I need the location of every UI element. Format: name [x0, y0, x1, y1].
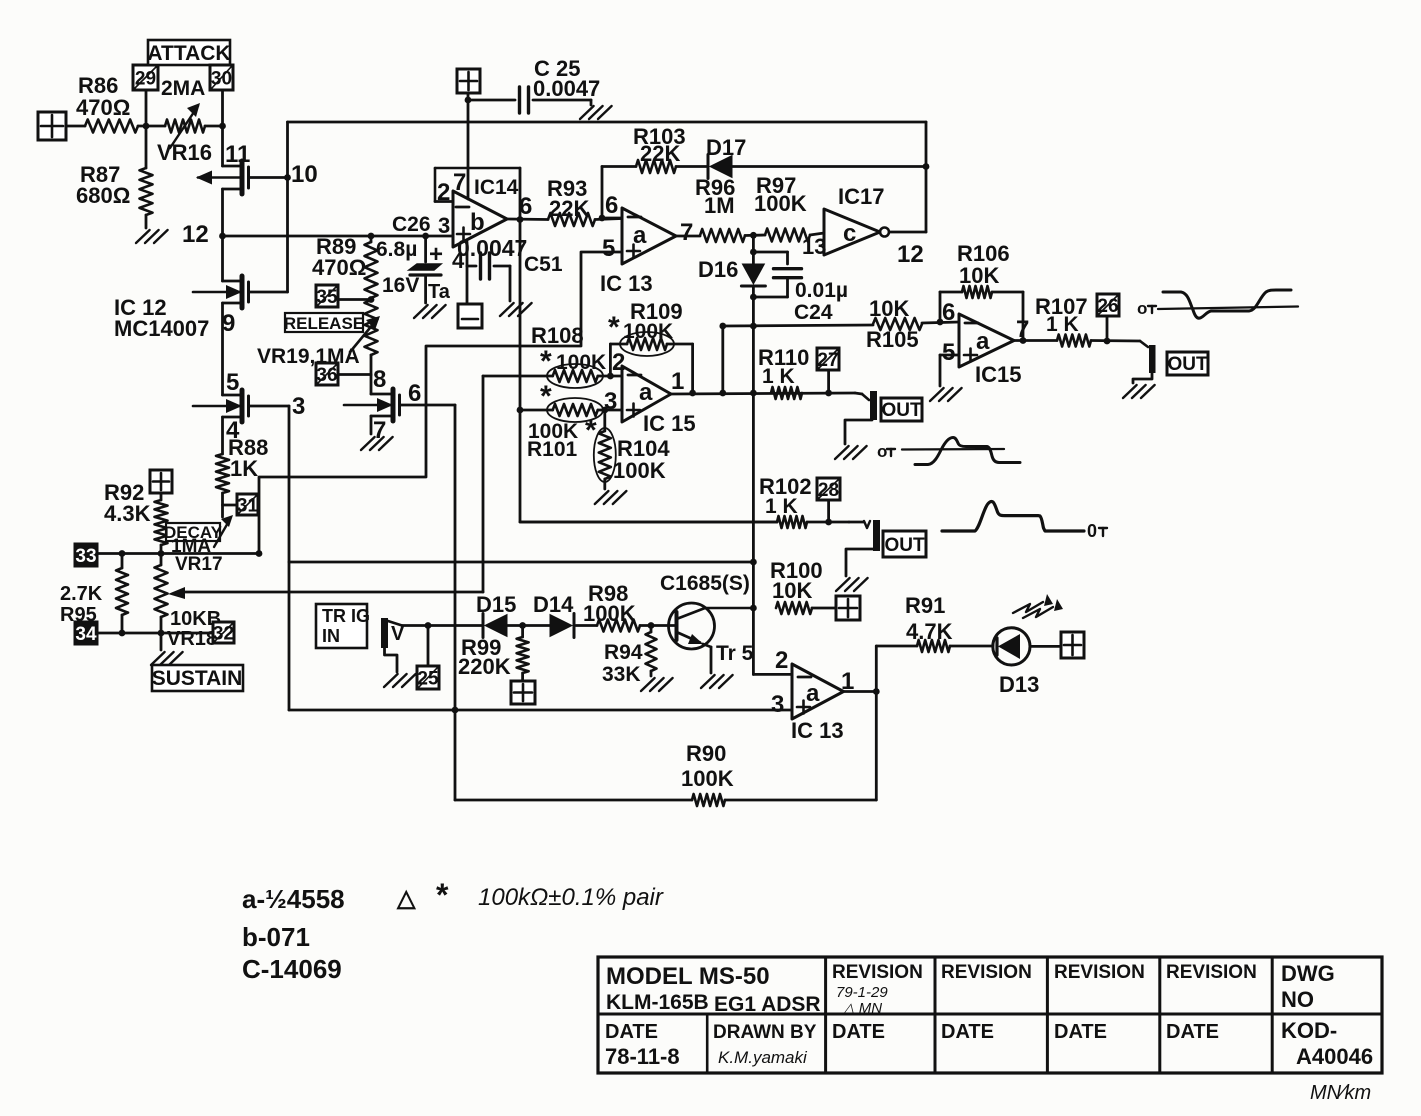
- svg-text:C-14069: C-14069: [242, 954, 342, 984]
- resistor R89 470ohm: [312, 233, 378, 298]
- terminal box 36: [316, 363, 371, 386]
- svg-text:16V: 16V: [382, 274, 419, 297]
- svg-text:78-11-8: 78-11-8: [605, 1044, 680, 1069]
- op-amp IC15 a (left): [604, 349, 696, 436]
- svg-text:1M: 1M: [704, 193, 735, 218]
- vertical wire IC14 output net down to out3: [520, 168, 777, 522]
- svg-text:VR17: VR17: [175, 554, 223, 575]
- junction R96 R97 D16: [745, 232, 765, 239]
- wire IC15b pin5 to ground: [940, 355, 959, 386]
- label 1MA VR17: [171, 536, 223, 575]
- resistor R93 22K: [547, 176, 622, 226]
- svg-text:11: 11: [225, 141, 250, 168]
- label SUSTAIN box: [152, 665, 243, 691]
- labels 10K C24 R105: [866, 296, 919, 352]
- svg-text:o: o: [877, 442, 887, 461]
- resistor R107 1K: [1035, 294, 1140, 347]
- wire R90 loop: [455, 692, 876, 807]
- svg-text:C26: C26: [392, 213, 431, 236]
- ground for C25: [580, 106, 594, 119]
- ground for C51: [500, 303, 514, 316]
- svg-text:3: 3: [771, 691, 784, 718]
- svg-text:C1685(S): C1685(S): [660, 572, 750, 595]
- transistor IC12 FET1 pins 11/10: [196, 141, 250, 194]
- svg-text:27: 27: [817, 350, 838, 371]
- svg-text:IC 13: IC 13: [791, 718, 844, 743]
- svg-text:2.7K: 2.7K: [60, 583, 103, 605]
- svg-text:R91: R91: [905, 593, 945, 618]
- wire R86 to VR16 with node: [138, 123, 165, 130]
- svg-text:5: 5: [942, 339, 955, 366]
- ground for FET4 source: [361, 437, 375, 450]
- svg-text:470Ω: 470Ω: [76, 95, 130, 120]
- svg-text:R108: R108: [531, 323, 584, 348]
- output jack 2: [846, 520, 880, 576]
- ground for VR18: [151, 633, 183, 665]
- svg-text:10K: 10K: [869, 296, 909, 321]
- wire IC17 output to top bus: [889, 122, 929, 268]
- wire R109 feedback corner: [610, 344, 692, 393]
- waveform sketch 3 (adsr, bottom): [942, 502, 1107, 541]
- title block model text: [606, 963, 821, 1016]
- wire FET1 source to node 12: [219, 189, 226, 239]
- svg-text:5: 5: [602, 235, 615, 262]
- wire pin5 sense path up and right: [259, 252, 622, 554]
- wire D16 column to IC13b pin2: [753, 608, 792, 674]
- svg-text:10: 10: [291, 161, 318, 188]
- svg-text:2MA: 2MA: [161, 77, 205, 100]
- svg-text:A40046: A40046: [1296, 1044, 1373, 1069]
- op-amp IC15 b (right): [942, 299, 1029, 387]
- ground for trigger jack: [384, 674, 398, 687]
- svg-text:79-1-29: 79-1-29: [836, 984, 888, 1001]
- label ATTACK: [147, 40, 230, 65]
- wire R103 column to IC13a minus input: [599, 167, 622, 222]
- capacitor C51 label 0.0047: [457, 235, 563, 276]
- svg-text:SUSTAIN: SUSTAIN: [152, 667, 243, 690]
- resistor R99 220K: [458, 622, 550, 681]
- terminal box 26: [1097, 294, 1119, 344]
- svg-text:1 K: 1 K: [1046, 313, 1079, 336]
- trigger input jack: [381, 618, 405, 672]
- svg-text:b-071: b-071: [242, 922, 310, 952]
- capacitor C25 0.0047: [468, 56, 600, 113]
- resistor R108 100K star pair element: [483, 345, 622, 388]
- svg-text:IC 15: IC 15: [643, 411, 696, 436]
- wire box30 node down to FET1 drain: [221, 126, 224, 166]
- svg-text:5: 5: [226, 369, 239, 396]
- ground for R94: [641, 678, 655, 691]
- svg-text:C24: C24: [794, 301, 833, 324]
- title block revision 2 cell: [941, 962, 1032, 1043]
- svg-text:RELEASE: RELEASE: [284, 314, 364, 333]
- terminal box 33: [75, 544, 164, 567]
- terminal + box for D13: [1061, 632, 1084, 658]
- svg-text:1K: 1K: [230, 456, 258, 481]
- svg-text:D16: D16: [698, 257, 738, 282]
- resistor R110 1K: [758, 345, 809, 388]
- svg-text:26: 26: [1097, 296, 1118, 317]
- wire R105 row: [723, 318, 959, 330]
- resistor R101 100K star pair: [520, 380, 622, 461]
- svg-text:470Ω: 470Ω: [312, 255, 366, 280]
- output jack 3 (right): [1133, 341, 1156, 383]
- potentiometer VR16: [157, 103, 212, 165]
- svg-text:*: *: [436, 877, 449, 913]
- svg-text:8: 8: [373, 366, 386, 393]
- terminal box 25: [417, 626, 439, 690]
- terminal box 27: [817, 348, 839, 396]
- label IC12 MC14007: [114, 295, 209, 341]
- label OUT box 3: [1167, 352, 1208, 375]
- wire FET2 source down to FET3: [221, 303, 224, 395]
- svg-text:6.8µ: 6.8µ: [376, 238, 417, 261]
- resistor R88 1K: [216, 417, 268, 517]
- diode D16: [698, 235, 765, 608]
- svg-text:R90: R90: [686, 741, 726, 766]
- ground for jack 1: [835, 446, 849, 459]
- svg-text:34: 34: [75, 624, 97, 645]
- terminal minus box: [458, 304, 482, 328]
- IC14 pin4 to minus box and C51: [467, 242, 510, 304]
- svg-text:KLM-165B: KLM-165B: [606, 991, 709, 1014]
- ground for C26: [414, 305, 428, 318]
- svg-text:TR IG: TR IG: [322, 606, 370, 626]
- op-amp IC17 c (14069 inverter): [802, 184, 889, 259]
- terminal + box above decay: [150, 470, 172, 500]
- svg-text:a: a: [639, 379, 653, 406]
- svg-text:12: 12: [897, 241, 924, 268]
- resistor R100 10K: [750, 558, 836, 614]
- svg-text:ATTACK: ATTACK: [147, 42, 230, 65]
- resistor R109 100K star pair: [608, 299, 693, 356]
- terminal box 28: [817, 478, 840, 525]
- title block revision 1 cell: [832, 962, 923, 1043]
- capacitor C26 6.8u 16V Ta: [376, 213, 451, 303]
- svg-text:100kΩ±0.1% pair: 100kΩ±0.1% pair: [478, 884, 664, 911]
- wire decay node to pin5 path corner: [161, 550, 262, 557]
- ground for IC15b pin5: [930, 388, 944, 401]
- svg-text:REVISION: REVISION: [832, 962, 923, 983]
- svg-text:R94: R94: [604, 641, 643, 664]
- diode D14: [533, 592, 597, 638]
- ground for jack 2: [836, 578, 850, 591]
- wire IC15b output: [1014, 339, 1057, 342]
- potentiometer VR19 RELEASE 1MA: [350, 300, 380, 375]
- ground for Tr5 emitter: [701, 675, 715, 688]
- svg-text:3: 3: [438, 213, 450, 238]
- svg-text:OUT: OUT: [884, 535, 925, 556]
- terminal box 30: [210, 65, 233, 126]
- svg-text:1 K: 1 K: [762, 365, 795, 388]
- wire IC14 output and junction: [507, 193, 548, 223]
- VR18 labels: [167, 608, 221, 650]
- vertical gate bus: [286, 122, 289, 292]
- wire node 12 to IC14 pin3: [223, 235, 454, 238]
- label OUT box 2: [883, 531, 926, 557]
- wire IC15a output row: [671, 390, 855, 397]
- resistor R98 100K: [583, 581, 677, 632]
- op-amp IC13 a (bottom comparator): [771, 647, 854, 743]
- capacitor C24 0.01u: [750, 249, 848, 324]
- svg-text:36: 36: [316, 365, 337, 386]
- svg-text:22K: 22K: [640, 141, 680, 166]
- svg-text:13: 13: [802, 234, 826, 259]
- resistor R86 470ohm: [76, 73, 138, 133]
- svg-text:28: 28: [818, 480, 839, 501]
- svg-text:DATE: DATE: [1054, 1021, 1107, 1043]
- svg-text:2: 2: [775, 647, 788, 674]
- resistor R91 4.7K: [876, 593, 993, 652]
- wire FET4 gate pin6: [400, 380, 456, 407]
- svg-text:DWG: DWG: [1281, 961, 1335, 986]
- terminal box 35: [316, 285, 374, 308]
- svg-text:△ MN: △ MN: [842, 1000, 882, 1017]
- terminal box 34: [75, 622, 164, 645]
- svg-text:VR19,1MA: VR19,1MA: [257, 345, 360, 368]
- svg-text:R105: R105: [866, 327, 919, 352]
- resistor R104 100K star pair: [585, 410, 670, 489]
- resistor R87 680ohm: [76, 126, 153, 228]
- svg-text:4.3K: 4.3K: [104, 501, 151, 526]
- svg-text:7: 7: [680, 219, 693, 246]
- svg-text:35: 35: [316, 287, 338, 308]
- wire trigger to D15: [402, 622, 483, 629]
- svg-text:IN: IN: [322, 626, 340, 646]
- svg-text:REVISION: REVISION: [1166, 962, 1257, 983]
- svg-text:25: 25: [417, 668, 439, 689]
- resistor R95 2.7K: [60, 554, 128, 634]
- svg-text:K.M.yamaki: K.M.yamaki: [718, 1048, 808, 1067]
- legend op-amp key a b c: [242, 884, 345, 984]
- svg-text:DRAWN BY: DRAWN BY: [713, 1022, 817, 1043]
- svg-text:IC17: IC17: [838, 184, 884, 209]
- waveform sketch 2 (overshoot pulse, middle): [877, 438, 1020, 465]
- wire to R105 row: [719, 323, 726, 393]
- svg-text:4.7K: 4.7K: [906, 619, 953, 644]
- svg-text:OUT: OUT: [881, 400, 922, 421]
- svg-text:0.0047: 0.0047: [533, 76, 600, 101]
- title block table: [598, 957, 1382, 1073]
- svg-text:680Ω: 680Ω: [76, 183, 130, 208]
- resistor R102 1K to out 2: [520, 474, 849, 528]
- svg-text:a: a: [806, 680, 820, 707]
- title block revision 4 cell: [1166, 962, 1257, 1043]
- svg-text:a: a: [633, 222, 647, 249]
- svg-text:30: 30: [211, 68, 232, 89]
- svg-text:OUT: OUT: [1167, 354, 1208, 375]
- label DECAY box: [164, 523, 223, 542]
- svg-text:100K: 100K: [681, 766, 734, 791]
- wire IC13a output: [676, 235, 700, 238]
- resistor R97 100K: [754, 173, 824, 242]
- svg-text:D13: D13: [999, 672, 1039, 697]
- title block date drawn cells: [605, 1021, 817, 1069]
- resistor R96 1M: [695, 175, 745, 242]
- svg-text:29: 29: [135, 68, 156, 89]
- svg-text:KOD-: KOD-: [1281, 1018, 1337, 1043]
- vertical wire pin3 column down: [288, 406, 291, 710]
- title block dwg no cell: [1281, 961, 1373, 1069]
- svg-text:DATE: DATE: [605, 1021, 658, 1043]
- potentiometer VR17 DECAY 1MA with R92: [104, 480, 168, 554]
- svg-text:22K: 22K: [549, 196, 589, 221]
- transistor Tr5 C1685(S): [660, 572, 754, 673]
- terminal + box for R100: [836, 596, 860, 620]
- svg-text:IC14: IC14: [474, 176, 519, 199]
- VR18 wiper arrow and sustain wire: [168, 587, 483, 599]
- svg-text:12: 12: [182, 221, 209, 248]
- potentiometer VR18 10KB SUSTAIN: [155, 554, 168, 634]
- terminal box 31: [223, 494, 259, 516]
- transistor IC12 FET2 pins 12/9: [193, 236, 249, 308]
- svg-text:IC15: IC15: [975, 362, 1021, 387]
- svg-text:DATE: DATE: [1166, 1021, 1219, 1043]
- svg-text:Ta: Ta: [428, 281, 451, 303]
- ground for R87: [136, 230, 150, 243]
- svg-text:220K: 220K: [458, 654, 511, 679]
- svg-text:DATE: DATE: [941, 1021, 994, 1043]
- terminal box 32: [161, 622, 234, 644]
- svg-text:*: *: [540, 345, 552, 378]
- wire FET1 gate to vertical: [249, 174, 291, 181]
- svg-text:0.01µ: 0.01µ: [795, 279, 848, 302]
- svg-text:a-½4558: a-½4558: [242, 884, 345, 914]
- svg-text:32: 32: [213, 623, 234, 644]
- wire VR16 to node of box30: [205, 123, 226, 130]
- svg-text:C51: C51: [524, 253, 563, 276]
- svg-text:100K: 100K: [583, 601, 636, 626]
- svg-text:MODEL MS-50: MODEL MS-50: [606, 963, 770, 990]
- svg-text:1: 1: [671, 368, 684, 395]
- wire IC13b output junction: [844, 688, 880, 695]
- svg-text:6: 6: [408, 380, 421, 407]
- svg-text:0: 0: [1087, 521, 1097, 541]
- wire H1 retrigger sense: [289, 559, 757, 566]
- svg-text:6: 6: [942, 299, 955, 326]
- svg-text:REVISION: REVISION: [941, 962, 1032, 983]
- svg-text:33: 33: [75, 546, 96, 567]
- svg-text:7: 7: [1016, 316, 1029, 343]
- resistor R94 33K: [602, 626, 657, 687]
- op-amp IC14 b (071): [435, 168, 520, 273]
- transistor IC12 FET3 pins 5/4/3: [193, 369, 249, 444]
- svg-text:D15: D15: [476, 592, 516, 617]
- waveform sketch 1 (inverted envelope, top right): [1137, 290, 1298, 318]
- diode D17: [676, 135, 926, 179]
- terminal + box top: [457, 69, 480, 199]
- svg-text:VR18: VR18: [167, 628, 217, 650]
- svg-text:31: 31: [237, 495, 259, 516]
- svg-text:6: 6: [605, 192, 618, 219]
- ground for jack 3: [1123, 385, 1137, 398]
- svg-text:c: c: [843, 220, 856, 247]
- svg-text:33K: 33K: [602, 663, 641, 686]
- wire terminal to R86: [66, 125, 85, 128]
- terminal input + box (left): [38, 112, 66, 140]
- vertical wire from FET4 gate down to comparator net: [452, 405, 459, 800]
- svg-text:b: b: [470, 209, 485, 236]
- svg-text:10K: 10K: [959, 263, 999, 288]
- svg-text:1 K: 1 K: [765, 495, 798, 518]
- svg-text:3: 3: [292, 393, 305, 420]
- svg-text:0.0047: 0.0047: [457, 235, 527, 261]
- transistor IC12 FET4 pins 8/6/7: [344, 366, 400, 444]
- svg-text:DATE: DATE: [832, 1021, 885, 1043]
- wire FET2 gate stub: [249, 291, 288, 294]
- svg-text:NO: NO: [1281, 987, 1314, 1012]
- svg-text:MN∕km: MN∕km: [1310, 1082, 1371, 1104]
- svg-text:100K: 100K: [754, 191, 807, 216]
- top bus wire from gates to IC17 column: [288, 121, 927, 124]
- wire FET3 gate to pin 3 column: [249, 393, 306, 420]
- terminal + box under R99: [511, 681, 535, 704]
- VR17 wiper arrow: [214, 515, 233, 547]
- LED D13: [993, 594, 1063, 697]
- svg-text:2: 2: [612, 349, 625, 376]
- legend matched pair note: [396, 877, 664, 913]
- wire IC14 pin2 stub: [435, 200, 453, 203]
- svg-text:10K: 10K: [772, 578, 812, 603]
- svg-text:R101: R101: [527, 438, 578, 461]
- svg-text:VR16: VR16: [157, 140, 212, 165]
- resistor R103 22K: [602, 124, 686, 173]
- svg-text:△: △: [396, 885, 417, 912]
- svg-text:MC14007: MC14007: [114, 316, 209, 341]
- svg-text:*: *: [608, 311, 620, 344]
- terminal box 29: [133, 65, 158, 126]
- op-amp IC13 a (top): [600, 192, 693, 296]
- label TRIG IN box: [316, 604, 370, 648]
- svg-text:D14: D14: [533, 592, 574, 617]
- svg-text:7: 7: [453, 169, 466, 196]
- svg-text:D17: D17: [706, 135, 746, 160]
- svg-text:a: a: [976, 328, 990, 355]
- label OUT box 1: [881, 398, 922, 421]
- label RELEASE box: [284, 313, 364, 333]
- resistor R106 10K feedback: [940, 241, 1026, 344]
- vertical wire sustain sense to R108: [482, 376, 485, 592]
- svg-text:*: *: [540, 380, 552, 413]
- svg-text:+: +: [429, 241, 443, 268]
- labels R90 100K: [681, 741, 734, 791]
- svg-text:IC 13: IC 13: [600, 271, 653, 296]
- svg-text:9: 9: [222, 310, 235, 337]
- ground for R104: [595, 491, 609, 504]
- output jack 1: [845, 391, 877, 444]
- wire S3 comparator plus input: [289, 709, 792, 712]
- svg-text:o: o: [1137, 299, 1147, 318]
- svg-text:EG1 ADSR: EG1 ADSR: [714, 993, 821, 1016]
- diode D15: [476, 592, 516, 638]
- svg-text:Tr 5: Tr 5: [716, 642, 754, 665]
- wire output up to R91 row: [875, 646, 878, 692]
- svg-text:100K: 100K: [613, 458, 666, 483]
- svg-text:REVISION: REVISION: [1054, 962, 1145, 983]
- title block revision 3 cell: [1054, 962, 1145, 1043]
